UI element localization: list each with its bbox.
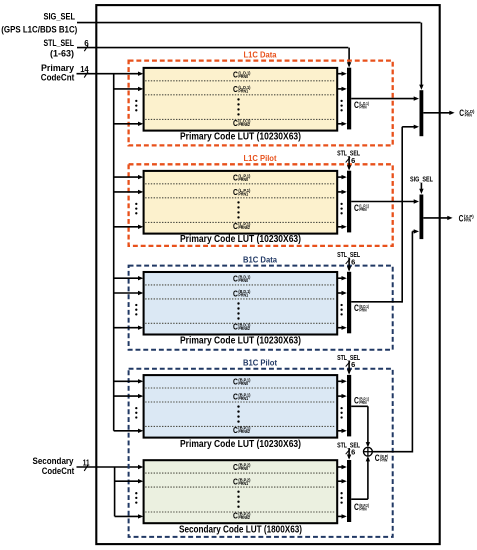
outer enclosure box bbox=[96, 5, 439, 544]
svg-text:6: 6 bbox=[351, 156, 355, 165]
caption Secondary bbox=[179, 525, 302, 536]
row label PRN62 B1C Pilot bbox=[233, 426, 251, 435]
svg-text:SIG_SEL: SIG_SEL bbox=[410, 174, 433, 183]
row label PRN62 L1C Data bbox=[233, 119, 251, 128]
label (1-63) bbox=[50, 48, 74, 59]
svg-text:STL_SEL: STL_SEL bbox=[44, 38, 75, 49]
row label PRN1 L1C Data bbox=[233, 85, 251, 94]
svg-text:PRN62: PRN62 bbox=[238, 122, 250, 127]
dots centre Secondary bbox=[237, 491, 239, 508]
label STL_SEL bbox=[44, 38, 75, 49]
title B1C Pilot bbox=[243, 359, 277, 368]
mux bar B1C Data bbox=[347, 272, 351, 334]
bus width 14 tick on Primary CodeCnt bbox=[80, 65, 89, 77]
LUT box B1C Data bbox=[144, 272, 338, 335]
select stub SIG_SEL into pilot mux bbox=[419, 183, 423, 194]
svg-text:Primary Code LUT (10230X63): Primary Code LUT (10230X63) bbox=[180, 336, 301, 347]
svg-text:PRN1: PRN1 bbox=[238, 293, 248, 298]
row label PRN0 L1C Pilot bbox=[233, 173, 251, 182]
output wire L1C Pilot code bbox=[351, 199, 419, 203]
svg-text:Primary Code LUT (10230X63): Primary Code LUT (10230X63) bbox=[180, 234, 301, 245]
row label PRN62 L1C Pilot bbox=[233, 222, 251, 231]
dots centre L1C Data bbox=[237, 98, 239, 115]
svg-text:C: C bbox=[459, 213, 464, 223]
output label C(L,D,1)PRN bbox=[354, 100, 369, 110]
dots left of LUT B1C Pilot bbox=[135, 407, 137, 419]
row label PRN62 B1C Data bbox=[233, 323, 251, 332]
label C(B,P)PRN at XOR output bbox=[375, 453, 389, 463]
svg-text:CodeCnt: CodeCnt bbox=[41, 73, 75, 84]
wire STL_SEL horizontal bbox=[77, 47, 348, 49]
pilot mux output wire bbox=[423, 216, 452, 220]
wires LUT to mux B1C Data bbox=[337, 276, 347, 330]
svg-text:Primary Code LUT (10230X63): Primary Code LUT (10230X63) bbox=[180, 131, 301, 142]
caption B1C Data bbox=[180, 336, 301, 347]
svg-text:STL_SEL: STL_SEL bbox=[337, 250, 360, 259]
wire Primary CodeCnt into LUT row 0 bbox=[77, 72, 144, 76]
svg-text:PRN0: PRN0 bbox=[238, 74, 248, 79]
mux bar Secondary bbox=[347, 460, 351, 522]
svg-text:PRN: PRN bbox=[359, 104, 366, 109]
svg-text:6: 6 bbox=[351, 448, 355, 457]
wires LUT to mux L1C Data bbox=[337, 72, 347, 127]
svg-text:PRN1: PRN1 bbox=[238, 396, 248, 401]
select stub STL_SEL block Secondary bbox=[337, 440, 360, 460]
row separators B1C Pilot bbox=[145, 388, 335, 426]
row label PRN62 Secondary bbox=[233, 511, 251, 520]
svg-text:C: C bbox=[459, 108, 464, 118]
svg-text:PRN62: PRN62 bbox=[238, 429, 250, 434]
wire SIG_SEL horizontal bbox=[77, 22, 421, 24]
row separators Secondary bbox=[145, 473, 335, 512]
dashed group box L1C Data bbox=[129, 61, 393, 146]
wire Secondary CodeCnt into Secondary LUT row 0 bbox=[77, 465, 144, 469]
LUT box L1C Pilot bbox=[144, 171, 338, 234]
svg-text:PRN0: PRN0 bbox=[238, 381, 248, 386]
label Secondary CodeCnt bbox=[33, 456, 75, 477]
svg-text:14: 14 bbox=[80, 65, 89, 74]
row label PRN1 L1C Pilot bbox=[233, 188, 251, 197]
dashed group box B1C Pilot bbox=[129, 369, 393, 537]
svg-text:STL_SEL: STL_SEL bbox=[337, 440, 360, 449]
input wires B1C Pilot bbox=[114, 379, 144, 433]
data mux output wire bbox=[423, 111, 454, 115]
output wire B1C Pilot primary to XOR bbox=[351, 406, 370, 447]
svg-text:PRN1: PRN1 bbox=[238, 481, 248, 486]
svg-text:PRN62: PRN62 bbox=[238, 326, 250, 331]
caption L1C Data bbox=[180, 131, 301, 142]
output wire Secondary code to XOR bbox=[351, 456, 370, 499]
LUT box L1C Data bbox=[144, 68, 338, 131]
wire Primary CodeCnt vertical branch bbox=[113, 74, 115, 431]
output wire B1C Data code feedback to data mux bbox=[351, 125, 419, 303]
svg-text:(GPS L1C/BDS B1C): (GPS L1C/BDS B1C) bbox=[1, 24, 77, 34]
label SIG_SEL bbox=[44, 12, 76, 23]
svg-text:L1C Pilot: L1C Pilot bbox=[244, 154, 277, 163]
svg-text:6: 6 bbox=[84, 39, 89, 48]
label Primary CodeCnt bbox=[41, 63, 75, 84]
data output mux bar bbox=[420, 90, 424, 136]
row label PRN1 B1C Data bbox=[233, 289, 251, 298]
svg-text:Primary Code LUT (10230X63): Primary Code LUT (10230X63) bbox=[180, 439, 301, 450]
svg-text:PRN0: PRN0 bbox=[238, 278, 248, 283]
svg-text:PRN62: PRN62 bbox=[238, 515, 250, 520]
bus width 11 tick on Secondary CodeCnt bbox=[83, 458, 90, 471]
svg-text:6: 6 bbox=[351, 360, 355, 369]
svg-text:PRN0: PRN0 bbox=[238, 177, 248, 182]
input wires L1C Data bbox=[114, 87, 144, 126]
row label PRN0 B1C Pilot bbox=[233, 378, 251, 387]
dots centre B1C Data bbox=[237, 302, 239, 319]
caption L1C Pilot bbox=[180, 234, 301, 245]
input wires B1C Data bbox=[114, 276, 144, 330]
output label C(X,D)PRN bbox=[459, 108, 475, 118]
row separators L1C Pilot bbox=[145, 184, 335, 223]
label SIG_SEL at pilot mux bbox=[410, 174, 433, 183]
svg-text:B1C Pilot: B1C Pilot bbox=[243, 359, 277, 368]
wires LUT to mux L1C Pilot bbox=[337, 175, 347, 229]
caption B1C Pilot bbox=[180, 439, 301, 450]
output label C(B,D,1)PRN bbox=[354, 303, 369, 313]
title L1C Data bbox=[244, 50, 278, 59]
row label PRN1 Secondary bbox=[233, 477, 251, 486]
input wires Secondary bbox=[115, 479, 144, 519]
LUT box B1C Pilot bbox=[144, 375, 338, 438]
svg-text:PRN1: PRN1 bbox=[238, 192, 248, 197]
wire STL_SEL down into L1C Data LUT mux bbox=[347, 48, 351, 68]
select stub STL_SEL block B1C Data bbox=[337, 250, 360, 272]
mux bar L1C Pilot bbox=[347, 171, 351, 233]
row label PRN0 L1C Data bbox=[233, 70, 251, 79]
svg-text:(1-63): (1-63) bbox=[50, 48, 74, 59]
svg-text:11: 11 bbox=[83, 458, 90, 467]
wire Secondary CodeCnt vertical branch bbox=[114, 467, 116, 516]
dots before mux L1C Data bbox=[340, 100, 342, 112]
title L1C Pilot bbox=[244, 154, 277, 163]
wire SIG_SEL vertical to data mux bbox=[419, 23, 423, 90]
svg-text:PRN: PRN bbox=[359, 400, 366, 405]
wire XOR output feedback to pilot mux bbox=[372, 229, 419, 452]
dots centre B1C Pilot bbox=[237, 405, 239, 422]
title B1C Data bbox=[243, 255, 278, 264]
svg-text:L1C Data: L1C Data bbox=[244, 50, 278, 59]
mux bar L1C Data bbox=[347, 68, 351, 130]
svg-text:B1C Data: B1C Data bbox=[243, 255, 278, 264]
dots left of LUT L1C Pilot bbox=[135, 203, 137, 215]
select stub STL_SEL block B1C Pilot primary bbox=[337, 353, 360, 375]
select stub STL_SEL block L1C Pilot bbox=[337, 149, 360, 171]
dashed group box B1C Data bbox=[129, 266, 393, 350]
dots left of LUT L1C Data bbox=[135, 100, 137, 112]
svg-text:PRN0: PRN0 bbox=[238, 466, 248, 471]
dots left of LUT B1C Data bbox=[135, 304, 137, 316]
dots before mux Secondary bbox=[340, 492, 342, 504]
dots centre L1C Pilot bbox=[237, 201, 239, 218]
output label C(B,P,1)PRN bbox=[354, 396, 369, 406]
svg-text:Secondary Code LUT (1800X63): Secondary Code LUT (1800X63) bbox=[179, 525, 302, 536]
wires LUT to mux Secondary bbox=[337, 465, 347, 519]
svg-text:PRN: PRN bbox=[359, 506, 366, 511]
dots before mux L1C Pilot bbox=[340, 203, 342, 215]
wires LUT to mux B1C Pilot bbox=[337, 379, 347, 433]
output wire L1C Data code bbox=[351, 96, 419, 100]
output label C(B,P,2)PRN bbox=[354, 502, 369, 512]
svg-text:SIG_SEL: SIG_SEL bbox=[44, 12, 76, 23]
dots before mux B1C Data bbox=[340, 304, 342, 316]
bus width 6 tick on STL_SEL bbox=[84, 39, 89, 51]
row separators B1C Data bbox=[145, 285, 335, 323]
output label C(L,P,1)PRN bbox=[354, 203, 369, 213]
svg-text:PRN62: PRN62 bbox=[238, 225, 250, 230]
svg-text:STL_SEL: STL_SEL bbox=[337, 149, 360, 158]
svg-text:CodeCnt: CodeCnt bbox=[42, 466, 75, 477]
input wires L1C Pilot bbox=[114, 175, 144, 229]
pilot output mux bar bbox=[420, 195, 424, 240]
XOR combiner for B1C pilot bbox=[364, 447, 373, 456]
svg-text:PRN: PRN bbox=[380, 457, 387, 462]
row label PRN1 B1C Pilot bbox=[233, 392, 251, 401]
row label PRN0 Secondary bbox=[233, 463, 251, 472]
dots left of LUT Secondary bbox=[135, 492, 137, 504]
svg-text:PRN: PRN bbox=[359, 308, 366, 313]
label (GPS L1C/BDS B1C) bbox=[1, 24, 77, 34]
mux bar B1C Pilot bbox=[347, 375, 351, 437]
LUT box Secondary bbox=[144, 460, 338, 523]
svg-text:PRN1: PRN1 bbox=[238, 89, 248, 94]
output label C(X,P)PRN bbox=[459, 213, 475, 223]
row separators L1C Data bbox=[145, 81, 335, 120]
svg-text:PRN: PRN bbox=[464, 218, 471, 223]
svg-text:PRN: PRN bbox=[465, 112, 472, 117]
svg-text:6: 6 bbox=[351, 257, 355, 266]
svg-text:STL_SEL: STL_SEL bbox=[337, 353, 360, 362]
row label PRN0 B1C Data bbox=[233, 275, 251, 284]
dashed group box L1C Pilot bbox=[129, 164, 393, 246]
dots before mux B1C Pilot bbox=[340, 407, 342, 419]
svg-text:PRN: PRN bbox=[359, 207, 366, 212]
